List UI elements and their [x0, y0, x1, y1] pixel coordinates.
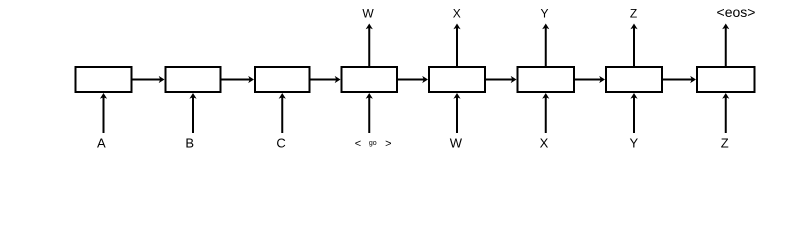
RNN cell box 8 — [697, 67, 755, 92]
wire: input arrow into box 7 — [630, 93, 637, 133]
wire: arrow from box 4 to box 5 — [398, 76, 428, 83]
wire: output arrow out of box 6 — [542, 24, 549, 67]
wire: arrow from box 7 to box 8 — [663, 76, 696, 83]
wire: arrow from box 5 to box 6 — [486, 76, 517, 83]
svg-text:A: A — [97, 136, 106, 151]
wire: arrow from box 1 to box 2 — [133, 76, 165, 83]
svg-text:W: W — [450, 136, 463, 151]
RNN cell box 4 — [342, 67, 398, 92]
svg-text:B: B — [185, 136, 194, 151]
wire: input arrow into box 4 — [366, 93, 373, 133]
svg-text:X: X — [540, 136, 549, 151]
RNN cell box 7 — [606, 67, 662, 92]
wire: arrow from box 6 to box 7 — [575, 76, 605, 83]
wire: arrow from box 2 to box 3 — [222, 76, 255, 83]
RNN cell box 6 — [518, 67, 575, 92]
svg-text:<: < — [355, 138, 361, 150]
svg-text:<eos>: <eos> — [717, 4, 756, 20]
svg-text:Z: Z — [630, 6, 637, 20]
svg-text:X: X — [453, 6, 461, 20]
wire: output arrow out of box 5 — [453, 24, 460, 67]
wire: input arrow into box 5 — [453, 93, 460, 133]
svg-text:Z: Z — [721, 136, 729, 151]
node label input &lt;go&gt; — [355, 138, 392, 150]
wire: arrow from box 3 to box 4 — [311, 76, 341, 83]
svg-text:C: C — [276, 136, 285, 151]
wire: input arrow into box 8 — [722, 93, 729, 133]
RNN cell box 5 — [429, 67, 485, 92]
wire: output arrow out of box 4 — [366, 24, 373, 67]
wire: input arrow into box 2 — [189, 93, 196, 133]
RNN cell box 1 — [76, 67, 132, 92]
svg-text:Y: Y — [540, 6, 548, 20]
svg-text:go: go — [369, 140, 377, 147]
seq2seq RNN encoder-decoder diagram — [0, 0, 797, 175]
RNN cell box 2 — [166, 67, 221, 92]
wire: input arrow into box 3 — [279, 93, 286, 133]
wire: output arrow out of box 8 — [722, 24, 729, 67]
RNN cell box 3 — [255, 67, 310, 92]
svg-text:>: > — [385, 138, 391, 150]
wire: input arrow into box 1 — [100, 93, 107, 133]
svg-text:W: W — [362, 6, 374, 20]
wire: input arrow into box 6 — [542, 93, 549, 133]
wire: output arrow out of box 7 — [630, 24, 637, 67]
svg-text:Y: Y — [629, 136, 638, 151]
